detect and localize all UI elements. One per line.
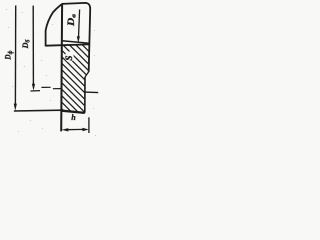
h dimension: right extension line: [88, 117, 90, 133]
bottom extension line from Dф arrow to body: [14, 109, 62, 112]
arrowhead of Dв dimension (down): [77, 36, 80, 43]
arrowhead of Dф dimension (down): [14, 104, 17, 111]
svg-text:S: S: [64, 56, 74, 61]
dimension line Dф (vertical, left): [14, 6, 16, 105]
arrowhead of Dб dimension (down): [32, 84, 35, 91]
bottom edge of body: [62, 111, 85, 113]
paper speckles: [6, 9, 96, 136]
axis / left edge line of body (continues as h extension line): [60, 4, 63, 131]
h right arrowhead (points right): [82, 128, 88, 131]
right extension line at step level: [85, 91, 98, 94]
section hatching: [10, 0, 150, 197]
white pocket around S label in hatching: [65, 51, 74, 62]
flange top line B (outer lip): [45, 44, 89, 45]
inner right edge of body: [84, 77, 86, 113]
dimension line Dв inside dome: [79, 10, 80, 38]
dome outline (left arc, flat top, right corner, right edge): [46, 3, 91, 72]
dashed extension line at Dб arrow level: [31, 87, 62, 91]
svg-text:h: h: [71, 113, 76, 122]
h left arrowhead (points left): [62, 128, 69, 131]
h dimension line: [67, 128, 85, 130]
dimension line Dб (vertical, second from left): [32, 6, 34, 85]
flange top line A (inner): [62, 41, 89, 43]
chamfer on right edge: [85, 72, 89, 77]
